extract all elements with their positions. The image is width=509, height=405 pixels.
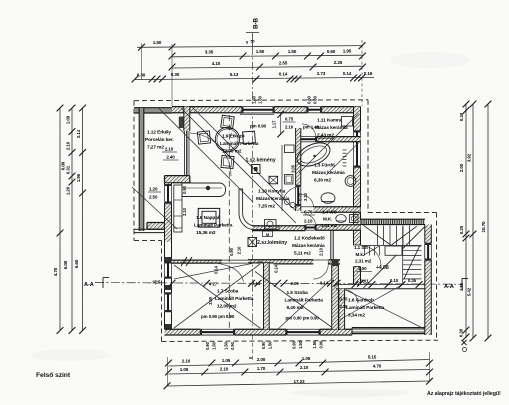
section line B-B vertical bbox=[252, 47, 254, 336]
roof diagonal room 1.5 a bbox=[255, 272, 332, 328]
south wall window (1.5 room) bbox=[286, 329, 320, 336]
dim reference line right x=362 bbox=[361, 40, 363, 106]
kitchen floor wall bbox=[252, 226, 306, 231]
dining chair south bbox=[221, 155, 234, 168]
balcony pillar block bbox=[147, 223, 165, 230]
corridor south wall west part bbox=[172, 260, 223, 263]
sofa along west wall bbox=[174, 185, 182, 232]
section line A-A across plan bbox=[95, 283, 462, 285]
eaves dashed outline right upper bbox=[367, 100, 369, 213]
south wall of wing glass band bbox=[352, 328, 428, 334]
gardrob north wall bbox=[336, 288, 425, 290]
mk west wall thin bbox=[330, 230, 332, 260]
right dim line R1 (0.30 2.00 0.25 4.85 0.30) bbox=[465, 104, 467, 338]
dim extension line x=141.5 bbox=[141, 43, 143, 80]
room 1.5 door swing bbox=[313, 264, 328, 279]
roof diagonal balcony low bbox=[132, 187, 177, 229]
wc basin bbox=[350, 215, 359, 223]
bottom dim row G (17.23) bbox=[167, 381, 430, 386]
balcony door leaf bbox=[184, 131, 186, 176]
roof diagonal gardrob a bbox=[340, 285, 402, 320]
wing north wall (vertical ticks) bbox=[361, 219, 426, 224]
kitchen appliance stove bbox=[285, 175, 294, 185]
bathroom toilet bbox=[321, 193, 335, 203]
east wall window (bathroom) bbox=[353, 131, 361, 167]
wall between 1.7 and 1.5 bbox=[264, 263, 270, 329]
dim extension line bottom right bbox=[429, 352, 431, 381]
eaves dashed outline right lower bbox=[436, 213, 438, 341]
kitchen chimney block bbox=[269, 176, 278, 184]
kitchen east wall bbox=[296, 142, 301, 211]
mark x-o right edge bbox=[462, 340, 467, 345]
kamra west wall stub bbox=[296, 128, 301, 142]
stair door opening bbox=[354, 244, 361, 246]
scan smudge 3 bbox=[390, 52, 470, 68]
chimney 2 symbol bbox=[248, 238, 257, 247]
wc floor wall bbox=[316, 225, 361, 230]
dim extension line bottom left bbox=[167, 357, 169, 386]
roof diagonal room 1.5 b bbox=[277, 280, 332, 331]
kitchen burners bbox=[284, 199, 289, 204]
kitchen appliance fridge bbox=[285, 145, 295, 153]
west wall main lower thin bbox=[164, 242, 166, 329]
dining chair east bbox=[243, 131, 256, 144]
dim rot 1.17 dining ne bbox=[280, 113, 282, 135]
roof diagonal room 1.7 shallow bbox=[174, 262, 262, 280]
bottom dim row E (2.10 1.05 2.00 1.05 5.15) bbox=[169, 360, 430, 367]
eaves dashed outline wing top bbox=[368, 212, 437, 214]
corridor south wall mid part bbox=[248, 260, 287, 263]
kamra m2 underline bbox=[316, 137, 334, 139]
corridor door 1.7 swing bbox=[215, 263, 244, 282]
room 1.5 north wall bbox=[274, 260, 314, 264]
scan smudge 2 bbox=[290, 389, 410, 397]
bathroom washbasin bbox=[345, 176, 356, 187]
west wall window (1.20) bbox=[164, 185, 172, 203]
left dim line L3 (2.14 1.96 / 6.60) bbox=[82, 108, 84, 331]
balcony slab bottom edge bbox=[134, 228, 165, 230]
south wall hatched bbox=[165, 329, 353, 335]
wing east wall window bbox=[424, 244, 432, 260]
bathroom door gap arc bbox=[301, 195, 314, 208]
dining chair west bbox=[197, 131, 210, 144]
room 1.5 east wall bbox=[332, 264, 339, 329]
kamra wall door gap + arc bbox=[300, 136, 317, 142]
eaves dashed step left bbox=[134, 240, 162, 242]
bathtub bbox=[293, 138, 333, 171]
gardrob west wall bbox=[339, 289, 345, 330]
left dim line L1 (6.00 / 4.70) bbox=[59, 108, 61, 331]
roof diagonal kamra bbox=[326, 143, 359, 175]
scan smudge 1 bbox=[30, 349, 110, 361]
balcony door swing arc bbox=[190, 133, 231, 176]
wc toilet bbox=[336, 215, 346, 223]
bathroom radiator bbox=[343, 149, 347, 151]
eaves dashed outline left lower bbox=[161, 241, 163, 342]
dimension row D (0.30 0.30 5.13 0.14 2.73 0.14 0.16) bbox=[135, 77, 374, 79]
west wall corner stub bbox=[165, 176, 190, 183]
roof diagonal gardrob b bbox=[346, 290, 425, 329]
chimney 1 symbol bbox=[252, 165, 261, 174]
roof diagonal room 1.7 b bbox=[174, 265, 260, 328]
gardrob door bbox=[345, 290, 358, 304]
roof diagonal room 1.7 a bbox=[174, 264, 260, 328]
dimension row A top (1.50) bbox=[137, 46, 362, 48]
eaves dashed outline bottom bbox=[162, 340, 439, 341]
east wall stub to corridor bbox=[354, 225, 361, 246]
west wall upper (dining, door jamb) bbox=[184, 107, 190, 131]
dim extension line x=172 bbox=[171, 44, 173, 106]
kitchen counter bbox=[239, 189, 279, 230]
roof diagonal bathroom bbox=[299, 114, 359, 174]
east wall upper bbox=[354, 107, 361, 225]
dining table bbox=[215, 127, 239, 151]
wall tick marks corridor bbox=[181, 257, 187, 266]
bathroom floor wall bbox=[314, 207, 361, 212]
plant living bbox=[206, 186, 210, 190]
bottom dim row F (1.05 2.10 1.70 2.10 4.70) bbox=[169, 370, 430, 375]
dimension row C (4.10 2.55 2.25) bbox=[172, 66, 363, 68]
kamra shelf bbox=[342, 117, 353, 127]
corridor wall right of 1.5 door bbox=[329, 260, 341, 264]
staircase treads and direction lines bbox=[377, 226, 379, 246]
west wall window mid bbox=[164, 262, 172, 278]
north wall window W2 0.75 bbox=[307, 106, 321, 113]
balcony door jamb block bbox=[179, 117, 184, 129]
kitchen sink bbox=[265, 220, 277, 230]
roof ridge dashed line x=229 bbox=[228, 115, 230, 329]
right dim line R2 (3.92 5.42) bbox=[472, 104, 474, 338]
balcony parapet west bbox=[139, 108, 144, 231]
north wall window W1 1.50 bbox=[242, 106, 274, 113]
eaves dashed outline left bbox=[133, 101, 135, 230]
south wall window (1.7 room) bbox=[201, 329, 235, 336]
west wall window lower bbox=[164, 293, 172, 311]
kitchen counter right edge bbox=[281, 145, 283, 211]
wc door gap + arc bbox=[305, 224, 316, 231]
rug living room bbox=[198, 208, 220, 227]
interior dim line at A-A bbox=[169, 280, 176, 287]
washing machine M bbox=[263, 231, 273, 237]
roof diagonal dining-kitchen long bbox=[192, 107, 296, 211]
north wall hatched bbox=[172, 107, 361, 113]
dimension row B (3.35 1.50 1.50 0.60 1.95) bbox=[172, 55, 363, 57]
left dim line L2 (1.09 2.10 0.31 1.20 / 6.00) bbox=[71, 108, 73, 331]
kamra floor wall bbox=[296, 137, 361, 142]
west wall main upper bbox=[165, 183, 172, 242]
wing east wall bbox=[425, 225, 432, 336]
roof diagonal over dining bbox=[181, 108, 296, 223]
eaves dashed outline top bbox=[134, 99, 368, 102]
dining chair north bbox=[221, 115, 235, 129]
sofa horizontal bbox=[182, 183, 226, 197]
roof diagonal over balcony-living bbox=[158, 108, 253, 203]
balcony parapet top bbox=[134, 108, 172, 113]
right dim line R3 (10.70) bbox=[487, 104, 489, 338]
bathroom west door gap bbox=[295, 186, 301, 206]
section marker B-B bottom stem bbox=[252, 336, 254, 362]
